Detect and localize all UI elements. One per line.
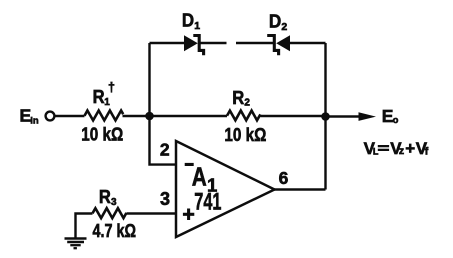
svg-text:2: 2 — [281, 21, 287, 33]
svg-text:z: z — [399, 145, 404, 157]
svg-text:2: 2 — [160, 140, 170, 160]
svg-text:f: f — [425, 145, 429, 157]
svg-text:D: D — [269, 11, 281, 32]
svg-text:741: 741 — [194, 189, 221, 216]
svg-text:6: 6 — [279, 168, 289, 188]
svg-text:4.7 kΩ: 4.7 kΩ — [93, 221, 137, 241]
svg-text:10 kΩ: 10 kΩ — [81, 124, 123, 145]
svg-text:2: 2 — [244, 97, 250, 108]
svg-text:in: in — [30, 116, 39, 127]
svg-text:R: R — [93, 87, 105, 107]
svg-text:3: 3 — [111, 197, 117, 208]
svg-text:†: † — [108, 80, 115, 94]
svg-text:R: R — [232, 88, 244, 108]
svg-text:+: + — [405, 139, 415, 158]
svg-text:o: o — [393, 115, 399, 126]
svg-text:10 kΩ: 10 kΩ — [224, 124, 266, 145]
svg-text:3: 3 — [160, 189, 170, 209]
svg-text:L: L — [373, 147, 379, 157]
svg-text:1: 1 — [194, 20, 200, 32]
svg-text:1: 1 — [104, 97, 110, 108]
svg-text:D: D — [182, 10, 194, 31]
svg-text:R: R — [99, 187, 111, 207]
svg-text:A: A — [192, 161, 207, 191]
